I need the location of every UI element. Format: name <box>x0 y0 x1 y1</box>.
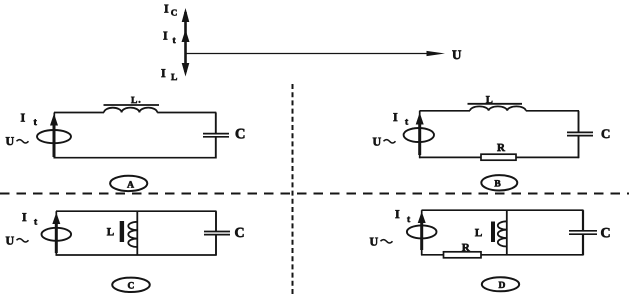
wire D top <box>422 209 584 211</box>
arrow I_t (circuit D) <box>418 212 426 251</box>
label C (circuit B) <box>602 129 610 138</box>
label I_t (circuit D) <box>395 210 410 222</box>
label U~ (circuit A) <box>6 137 29 145</box>
wire C right vertical upper <box>215 211 217 231</box>
arrow I_t (circuit A) <box>50 114 58 158</box>
wire B bottom-right <box>516 156 579 158</box>
node label C <box>112 278 150 292</box>
label I_L <box>161 69 177 80</box>
label C (circuit A) <box>236 129 245 139</box>
capacitor C3 (circuit C) <box>204 232 230 235</box>
phasor current axis shaft <box>184 12 187 72</box>
node label B <box>481 175 517 190</box>
label L (circuit D) <box>475 229 482 236</box>
label U axis <box>452 50 461 59</box>
label I_t (circuit A) <box>21 114 37 125</box>
phasor vector I_C arrowhead <box>182 8 190 22</box>
wire B right vertical lower <box>578 136 580 159</box>
label I_t (circuit C) <box>22 213 37 224</box>
wire D right vertical upper <box>582 210 584 231</box>
phasor vector I_t arrowhead <box>182 30 190 43</box>
node label D <box>482 277 519 291</box>
wire A top-right <box>157 112 216 114</box>
label U~ (circuit B) <box>373 138 396 146</box>
label R (circuit B) <box>497 144 505 151</box>
divider horizontal dashed <box>0 193 629 195</box>
label U~ (circuit D) <box>370 238 393 246</box>
label I_t phasor <box>163 32 175 43</box>
wire B top-right <box>526 110 579 112</box>
wire A right vertical lower <box>215 137 217 159</box>
label U~ (circuit C) <box>6 237 29 245</box>
inductor L2 (circuit B) <box>468 104 526 111</box>
divider vertical dashed <box>292 84 294 295</box>
inductor L4 (circuit D) <box>498 210 507 255</box>
resistor R1 (circuit B) <box>481 154 516 160</box>
arrow I_t (circuit B) <box>416 113 424 156</box>
capacitor C4 (circuit D) <box>569 231 597 234</box>
resistor R2 (circuit D) <box>444 252 482 258</box>
wire B right vertical upper <box>578 111 580 133</box>
capacitor C1 (circuit A) <box>203 134 229 137</box>
inductor core bar (circuit D) <box>491 222 495 243</box>
wire A right vertical upper <box>215 113 217 134</box>
source U~ (circuit C) <box>42 228 72 241</box>
wire C top <box>56 210 217 212</box>
wire A bottom <box>54 157 217 159</box>
source U~ (circuit B) <box>404 128 434 142</box>
wire A left vertical <box>53 113 55 159</box>
wire B left vertical <box>419 111 421 158</box>
wire B top-left <box>420 110 471 112</box>
wire A top-left <box>54 112 104 114</box>
wire D left vertical <box>421 210 423 255</box>
label I_C <box>164 5 176 16</box>
label C (capacitor circuit D) <box>601 228 609 237</box>
inductor L3 (circuit C) <box>128 211 137 255</box>
label I_t (circuit B) <box>393 113 408 124</box>
wire D right vertical lower <box>582 234 584 255</box>
node label A <box>110 176 147 191</box>
label C (capacitor circuit C) <box>235 228 243 237</box>
label L (circuit C) <box>107 228 114 235</box>
source U~ (circuit A) <box>37 130 71 143</box>
wire B bottom-left <box>419 156 481 158</box>
inductor core bar (circuit C) <box>120 221 124 242</box>
wire C left vertical <box>55 211 57 255</box>
label L (circuit A) <box>131 97 140 103</box>
wire D bottom-left <box>421 254 444 256</box>
capacitor C2 (circuit B) <box>567 132 593 135</box>
phasor axis U <box>186 51 446 56</box>
label R (circuit D) <box>462 244 470 251</box>
inductor L1 (circuit A) <box>104 105 160 113</box>
source U~ (circuit D) <box>407 225 437 238</box>
label L (circuit B) <box>486 96 492 103</box>
wire D bottom-right <box>481 254 584 256</box>
arrow I_t (circuit C) <box>52 213 60 254</box>
wire C right vertical lower <box>215 235 217 256</box>
wire C bottom <box>56 254 217 256</box>
phasor vector I_L arrowhead <box>182 63 190 77</box>
